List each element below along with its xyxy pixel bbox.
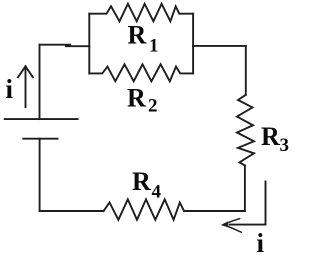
svg-text:R: R: [261, 122, 280, 151]
svg-text:4: 4: [152, 182, 162, 203]
current arrow bottom-right arrowhead whiskers: [228, 219, 242, 233]
resistor R1: [89, 4, 193, 22]
svg-text:R: R: [127, 84, 146, 113]
wire top-left horizontal: [40, 44, 71, 46]
node right of parallel branch: [192, 14, 194, 74]
wire battery negative to bottom: [39, 139, 41, 211]
svg-text:R: R: [132, 167, 151, 196]
wire top-left horizontal jog segment: [66, 45, 89, 47]
wire left vertical (top corner to battery +): [39, 45, 41, 119]
wire bottom right: [184, 210, 245, 212]
battery plate long (positive): [5, 118, 78, 120]
svg-text:1: 1: [149, 36, 159, 57]
svg-text:2: 2: [148, 96, 158, 117]
svg-text:R: R: [128, 21, 147, 50]
node left of parallel branch: [88, 14, 90, 74]
svg-text:i: i: [257, 228, 265, 258]
wire right vertical lower: [244, 166, 246, 212]
resistor R2: [89, 64, 193, 81]
wire right vertical upper: [245, 46, 247, 95]
resistor R3: [237, 95, 254, 166]
svg-text:i: i: [6, 74, 14, 104]
current arrow up (left side): [18, 66, 33, 107]
wire bottom left: [40, 210, 104, 212]
resistor R4: [104, 199, 184, 220]
current arrow bottom-right hook wire: [230, 182, 266, 225]
wire top-right horizontal: [193, 45, 246, 47]
svg-text:3: 3: [280, 135, 290, 156]
battery plate short (negative): [23, 138, 57, 140]
arrowhead tip fill (bottom-right arrow): [221, 222, 228, 228]
